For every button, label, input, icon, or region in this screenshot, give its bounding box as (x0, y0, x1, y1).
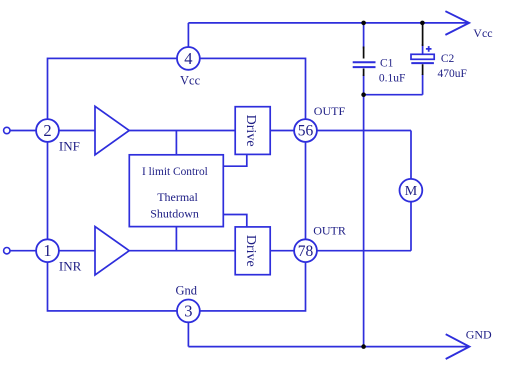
svg-text:470uF: 470uF (438, 68, 467, 80)
svg-text:Drive: Drive (243, 235, 258, 267)
svg-text:INF: INF (59, 139, 80, 154)
svg-text:C2: C2 (441, 53, 455, 65)
svg-text:C1: C1 (380, 57, 394, 69)
svg-text:4: 4 (184, 49, 192, 68)
svg-text:M: M (405, 184, 418, 199)
svg-text:I limit Control: I limit Control (142, 166, 208, 178)
svg-text:Vcc: Vcc (473, 26, 492, 40)
svg-text:Thermal: Thermal (157, 190, 198, 204)
svg-text:Drive: Drive (243, 115, 258, 147)
svg-text:Shutdown: Shutdown (150, 207, 199, 221)
svg-text:Gnd: Gnd (176, 284, 198, 298)
svg-text:Vcc: Vcc (180, 74, 201, 88)
svg-text:2: 2 (43, 121, 51, 140)
svg-text:78: 78 (298, 243, 314, 260)
svg-text:1: 1 (43, 241, 51, 260)
svg-text:0.1uF: 0.1uF (379, 72, 406, 84)
svg-text:56: 56 (298, 123, 314, 140)
svg-text:OUTR: OUTR (313, 224, 346, 238)
svg-text:OUTF: OUTF (314, 104, 346, 118)
svg-text:GND: GND (466, 328, 492, 342)
svg-text:INR: INR (59, 259, 82, 274)
svg-text:3: 3 (184, 301, 192, 320)
